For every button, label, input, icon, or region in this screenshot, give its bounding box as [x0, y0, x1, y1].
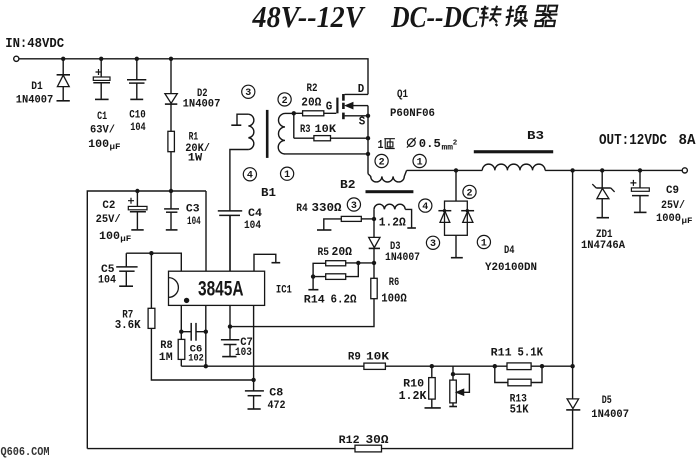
svg-text:25V/: 25V/: [96, 214, 121, 226]
label R4 330Ω: [296, 202, 341, 215]
svg-text:1.2K: 1.2K: [399, 390, 427, 403]
label R10 1.2K: [399, 390, 427, 403]
svg-text:103: 103: [235, 347, 252, 359]
pin number 3 of B1: [242, 85, 255, 99]
resistor R13: [508, 379, 531, 386]
label ZD1 1N4746A: [581, 240, 625, 252]
resistor R7: [148, 308, 155, 328]
label Q1 P60NF06: [390, 108, 435, 120]
svg-text:1N4746A: 1N4746A: [581, 240, 625, 252]
label R1 20K/: [185, 143, 210, 155]
svg-text:C4: C4: [248, 208, 262, 220]
node: R5/R14 right: [356, 261, 360, 265]
svg-text:2: 2: [453, 140, 458, 148]
node: R7 rail at pin4: [251, 378, 255, 382]
label C9: [666, 185, 679, 197]
node: D4 left bar: [443, 209, 446, 212]
input terminal: [14, 56, 19, 61]
R5 right lead: [346, 262, 374, 264]
label D4 Y20100DN: [485, 262, 537, 274]
node: D4 right bar: [466, 209, 469, 212]
node: C9 tap: [638, 168, 642, 172]
IC pin wire: VCC up to C2/C3 rail: [205, 191, 207, 271]
label D5: [602, 395, 612, 407]
node: R7 top: [149, 251, 153, 255]
node: R4 / B2 sec junction: [372, 217, 376, 221]
B1 pin 4 lead to C4: [230, 150, 249, 211]
label C9 25V/: [661, 200, 685, 212]
label C2 100uF: [99, 231, 131, 244]
label D5 1N4007: [591, 409, 629, 421]
label C1: [97, 111, 107, 123]
label B3: [527, 129, 544, 143]
watermark Q606.COM: [1, 446, 50, 459]
svg-text:R5: R5: [318, 247, 330, 259]
svg-text:μF: μF: [682, 216, 693, 226]
svg-text:C1: C1: [97, 111, 107, 123]
label C3: [186, 204, 200, 216]
resistor R12: [355, 445, 382, 452]
label C4 104: [244, 220, 261, 232]
R3 leads: [294, 137, 368, 139]
label R6: [389, 277, 400, 289]
node: source junction: [366, 114, 370, 118]
svg-text:OUT:12VDC: OUT:12VDC: [599, 133, 667, 149]
label R9 10K: [348, 352, 390, 364]
pin number 1 of B2: [413, 154, 426, 168]
D4 left diode: [438, 211, 451, 223]
label R6 100Ω: [381, 292, 407, 305]
label R7 3.6K: [115, 319, 141, 332]
svg-text:100: 100: [99, 231, 120, 243]
pin number 2 of D4: [463, 185, 476, 199]
svg-text:B1: B1: [261, 186, 276, 200]
label R12 30Ω: [339, 434, 389, 447]
wire: VCC rail / left loop: [87, 191, 206, 449]
svg-text:R4: R4: [296, 203, 308, 215]
IC pin wire: pin4 down to C8: [253, 305, 255, 391]
pin number 1 of B1: [281, 167, 294, 181]
label C4: [248, 208, 262, 220]
resistor R7 wire from node: [150, 253, 152, 308]
label C8: [269, 387, 283, 399]
capacitor C1 (electrolytic): [93, 59, 110, 100]
label R2 20Ω: [301, 97, 321, 110]
wire: bus to D2: [170, 59, 172, 94]
label D3: [390, 241, 401, 253]
svg-text:6.2Ω: 6.2Ω: [331, 294, 357, 307]
label wire gauge 0.5mm2: [407, 137, 457, 153]
svg-text:D3: D3: [390, 241, 401, 253]
label D3 1N4007: [385, 252, 420, 264]
node: ZD1 tap: [600, 168, 604, 172]
label C2: [102, 200, 115, 212]
label IN:48VDC: [5, 36, 65, 52]
diode D3: [369, 237, 380, 248]
svg-text:10K: 10K: [366, 352, 389, 364]
resistor R4: [341, 216, 361, 221]
svg-text:1: 1: [284, 170, 290, 181]
IC pin wire: pin up to C4: [229, 215, 231, 271]
B1 secondary winding (right): [278, 113, 285, 154]
wire: feedback rail: [181, 365, 572, 367]
label C3 104: [187, 216, 201, 228]
svg-text:mm: mm: [442, 143, 454, 153]
resistor R1: [168, 131, 175, 151]
inductor B3 winding: [482, 164, 545, 170]
wire: B2 sec to D3: [373, 219, 375, 237]
svg-text:472: 472: [268, 400, 286, 412]
label B1: [261, 186, 276, 200]
svg-text:R8: R8: [160, 340, 173, 352]
node: R11 right: [540, 364, 544, 368]
svg-text:48V--12V: 48V--12V: [252, 0, 366, 34]
svg-text:330Ω: 330Ω: [312, 202, 342, 215]
svg-text:1N4007: 1N4007: [385, 252, 420, 264]
node: D1 on bus: [61, 57, 65, 61]
pin number 2 of B1: [278, 93, 291, 107]
label R13 51K: [510, 403, 529, 416]
svg-text:S: S: [359, 116, 366, 129]
IC pin wire: pin3 down to C7: [229, 305, 231, 339]
transformer B1 core: [266, 110, 269, 158]
svg-text:1N4007: 1N4007: [16, 95, 54, 107]
wire: D2 to R1: [170, 104, 172, 131]
svg-text:3.6K: 3.6K: [115, 319, 141, 332]
wire: tap down to D4: [455, 170, 457, 201]
svg-text:104: 104: [98, 275, 116, 287]
label R7: [122, 310, 133, 322]
svg-text:R11: R11: [491, 348, 512, 360]
wire: D5 to bottom rail: [87, 410, 572, 449]
svg-text:D1: D1: [31, 81, 43, 93]
label R8 1M: [159, 352, 173, 364]
label D2: [197, 88, 208, 100]
svg-text:1.2Ω: 1.2Ω: [379, 217, 406, 230]
pin number 4 of B1: [243, 168, 256, 182]
resistor R11: [507, 363, 531, 370]
label C6 102: [188, 354, 204, 365]
label 8A: [679, 133, 696, 149]
node: R10 tap: [430, 364, 434, 368]
node: D4 tap: [454, 168, 458, 172]
node: B1 pin1 at source rail: [366, 152, 370, 156]
svg-text:1: 1: [417, 157, 423, 168]
svg-text:1W: 1W: [188, 153, 203, 165]
svg-text:B3: B3: [527, 129, 544, 143]
label R5 20Ω: [318, 246, 353, 259]
svg-text:3: 3: [351, 201, 357, 212]
svg-text:D4: D4: [504, 245, 515, 257]
transformer B2 core: [366, 190, 414, 193]
node: pot wiper tie: [451, 372, 455, 376]
B1 pin 3 lead with stub: [231, 114, 248, 125]
Q1 drain lead: [345, 93, 368, 95]
svg-text:μF: μF: [120, 234, 131, 244]
label C1 63V/: [90, 125, 115, 137]
svg-text:C2: C2: [102, 200, 115, 212]
svg-text:3845A: 3845A: [198, 276, 244, 300]
svg-text:1: 1: [481, 238, 487, 249]
potentiometer RP: [449, 366, 469, 406]
D4 bottom lead with stub: [451, 235, 463, 257]
resistor R5: [326, 261, 346, 266]
IC pin wire: pin2 down: [205, 305, 207, 366]
capacitor C9 (electrolytic): [630, 170, 649, 212]
label D1: [31, 81, 43, 93]
label C1 100uF: [88, 139, 120, 152]
label C9 1000uF: [656, 213, 693, 226]
R2 leads: [294, 112, 337, 114]
pin number 2 of B2: [375, 154, 388, 168]
label 1匝 (1 turn): [378, 138, 395, 152]
label OUT:12VDC: [599, 133, 667, 149]
svg-text:2: 2: [282, 96, 288, 107]
node: B1 pin2 junction: [292, 111, 296, 115]
title text "48V--12V DC--DC": [252, 0, 479, 34]
label B2: [340, 178, 356, 192]
R14 right link: [346, 263, 359, 277]
capacitor C10: [127, 59, 146, 100]
svg-text:Q1: Q1: [397, 89, 408, 101]
svg-text:DC--DC: DC--DC: [390, 0, 479, 34]
B2 secondary right lead with stub: [405, 209, 416, 228]
svg-text:1N4007: 1N4007: [591, 409, 629, 421]
pin number 3 of D4: [426, 236, 439, 250]
svg-text:20Ω: 20Ω: [301, 97, 321, 110]
label B2 1.2Ω: [379, 217, 406, 230]
label C2 25V/: [96, 214, 121, 226]
B1 pin 1 lead to Q1 source node: [285, 153, 368, 155]
label C8 472: [268, 400, 286, 412]
transistor Q1 body bars: [342, 94, 345, 119]
svg-text:Q606.COM: Q606.COM: [1, 446, 50, 459]
resistor R2: [303, 111, 324, 116]
wire: +48V top bus to Q1 drain: [19, 59, 368, 95]
capacitor C4: [218, 211, 242, 271]
svg-text:1N4007: 1N4007: [183, 99, 221, 111]
label C5: [101, 264, 115, 276]
node: C2 tap: [135, 189, 139, 193]
svg-text:10K: 10K: [315, 124, 337, 136]
IC pin wire: Vref to C5/R7: [126, 253, 181, 271]
node: D3 cathode junction: [372, 261, 376, 265]
svg-text:51K: 51K: [510, 403, 529, 416]
svg-text:5.1K: 5.1K: [518, 347, 544, 360]
label G (gate): [326, 101, 333, 114]
label C10: [129, 109, 146, 121]
svg-text:104: 104: [187, 216, 201, 228]
Q1 body arrow: [346, 103, 368, 109]
wire: output rail down: [572, 170, 574, 366]
node: R11 left: [493, 364, 497, 368]
svg-text:1000: 1000: [656, 213, 681, 225]
svg-text:63V/: 63V/: [90, 125, 115, 137]
svg-text:102: 102: [188, 354, 204, 365]
resistor R8: [178, 339, 185, 359]
label C6: [190, 345, 203, 356]
label C7 103: [235, 347, 252, 359]
svg-text:μF: μF: [110, 142, 121, 152]
svg-text:4: 4: [422, 202, 428, 213]
R5/R14 left link with stub: [308, 263, 325, 289]
svg-text:IN:48VDC: IN:48VDC: [5, 36, 65, 52]
svg-text:C8: C8: [269, 387, 283, 399]
wire: pin2 node down to R3: [293, 113, 295, 138]
svg-text:C10: C10: [129, 109, 146, 121]
node: D2 branch on bus: [169, 57, 173, 61]
label C7: [240, 337, 253, 349]
IC pin wire: pin1 down: [180, 305, 182, 339]
svg-text:104: 104: [130, 122, 146, 134]
pin number 1 of D4: [477, 235, 490, 249]
wire: R1 to VCC node: [170, 152, 172, 191]
label D2 1N4007: [183, 99, 221, 111]
zener diode ZD1: [592, 170, 614, 217]
output terminal: [682, 168, 687, 173]
svg-text:4: 4: [247, 171, 253, 182]
svg-text:Y20100DN: Y20100DN: [485, 262, 537, 274]
R4 right lead: [361, 218, 374, 220]
label R10: [403, 378, 424, 390]
wire: D3 to R5 node: [373, 248, 375, 263]
svg-text:R14: R14: [304, 295, 325, 307]
label R13: [510, 393, 528, 405]
R4 left lead with stub: [317, 219, 341, 230]
diode D1: [57, 59, 71, 101]
svg-text:R3: R3: [300, 124, 311, 136]
resistor R13 loop: [495, 366, 542, 382]
svg-text:IC1: IC1: [276, 284, 292, 296]
node: feedback at output rail: [570, 364, 574, 368]
label R1: [189, 132, 199, 144]
IC pin wire: top-right hook with stub: [254, 254, 280, 271]
label R2: [307, 83, 318, 95]
node: C1 on bus: [99, 57, 103, 61]
node: C10 on bus: [135, 57, 139, 61]
B2 primary winding: [368, 170, 407, 182]
label C10 104: [130, 122, 146, 134]
inductor B3 core: [474, 150, 553, 153]
svg-text:C3: C3: [186, 204, 200, 216]
label ZD1: [596, 229, 613, 241]
label 3845A: [198, 276, 244, 300]
svg-text:20Ω: 20Ω: [332, 246, 353, 259]
svg-text:R9: R9: [348, 352, 361, 364]
capacitor C5: [116, 253, 137, 286]
svg-text:R6: R6: [389, 277, 400, 289]
label C5 104: [98, 275, 116, 287]
B1 pin 2 lead: [285, 112, 294, 114]
svg-text:1: 1: [378, 138, 384, 152]
label R14 6.2Ω: [304, 294, 357, 307]
capacitor C3: [164, 191, 179, 230]
svg-text:C9: C9: [666, 185, 679, 197]
node: output rail left: [570, 168, 574, 172]
rectifier D4 body: [445, 201, 468, 235]
svg-text:3: 3: [430, 239, 436, 250]
label D4: [504, 245, 515, 257]
node: pin2 at rail: [204, 364, 208, 368]
capacitor C8: [245, 391, 264, 409]
label D (drain): [358, 83, 365, 96]
resistor R9: [364, 363, 386, 369]
svg-text:R12: R12: [339, 435, 360, 447]
R7 bottom wire to pin8 rail: [151, 328, 253, 380]
node: IC pin3 junction: [228, 324, 232, 328]
svg-text:8A: 8A: [679, 133, 696, 149]
svg-text:P60NF06: P60NF06: [390, 108, 435, 120]
capacitor C6: [181, 323, 206, 341]
svg-text:B2: B2: [340, 178, 356, 192]
node: C3 tap: [169, 189, 173, 193]
op-amp/PWM IC U1 3845A body: [169, 271, 265, 305]
svg-text:0.5: 0.5: [419, 137, 441, 151]
label D1 1N4007: [16, 95, 54, 107]
svg-text:100: 100: [88, 139, 109, 151]
svg-text:R2: R2: [307, 83, 318, 95]
node: R3 at source rail: [366, 136, 370, 140]
svg-text:2: 2: [466, 188, 472, 199]
diode D5: [566, 399, 580, 410]
svg-text:1M: 1M: [159, 352, 173, 364]
pin number 3 of B2: [347, 198, 360, 212]
B2 secondary left lead: [373, 209, 375, 219]
label R8: [160, 340, 173, 352]
pin number 4 of B2: [419, 199, 432, 213]
node: C6 right: [204, 330, 208, 334]
D4 right diode: [461, 211, 474, 223]
B1 primary winding (left): [248, 114, 253, 149]
wire: rail to D5: [572, 366, 574, 399]
capacitor C7: [221, 340, 239, 357]
label R1 1W: [188, 153, 203, 165]
svg-text:104: 104: [244, 220, 261, 232]
transistor Q1 gate bar: [336, 98, 338, 114]
resistor R14: [326, 274, 346, 280]
wire: node to R6: [373, 263, 375, 278]
svg-text:2: 2: [379, 157, 385, 168]
label S (source): [359, 116, 366, 129]
svg-text:R10: R10: [403, 378, 424, 390]
Q1 source lead: [345, 115, 368, 117]
svg-text:100Ω: 100Ω: [381, 292, 407, 305]
wire: B3 to output terminal: [545, 169, 682, 171]
label R3 10K: [300, 124, 336, 136]
wire: source rail down to B2: [367, 106, 369, 174]
resistor R3: [314, 136, 331, 141]
node: R5/R14 left: [311, 274, 315, 278]
svg-text:G: G: [326, 101, 333, 114]
R8 bottom lead: [180, 359, 182, 366]
resistor R10 with stub: [425, 366, 441, 408]
label Q1: [397, 89, 408, 101]
node: C6 left: [179, 330, 183, 334]
svg-text:D: D: [358, 83, 365, 96]
diode D2: [165, 94, 177, 105]
label IC1: [276, 284, 292, 296]
svg-text:30Ω: 30Ω: [366, 434, 389, 447]
wire: B2/B3 output run: [407, 169, 483, 171]
svg-text:R1: R1: [189, 132, 199, 144]
resistor R6: [371, 278, 377, 298]
svg-text:3: 3: [245, 88, 251, 99]
title text 转换器 (Chinese: converter): [478, 6, 559, 27]
B2 secondary winding: [374, 204, 405, 209]
capacitor C2 (electrolytic): [128, 191, 147, 230]
svg-text:D5: D5: [602, 395, 612, 407]
svg-text:25V/: 25V/: [661, 200, 685, 212]
